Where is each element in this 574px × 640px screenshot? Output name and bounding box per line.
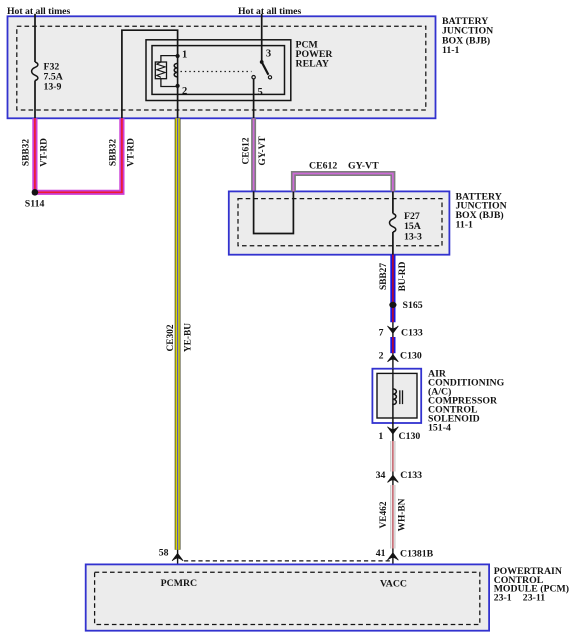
relay switch blade bbox=[262, 62, 272, 79]
svg-text:SBB32: SBB32 bbox=[21, 139, 31, 166]
wire: relay pin 5 down inside BJB bbox=[253, 79, 255, 118]
label: F27 15A 13-3 bbox=[404, 211, 422, 243]
battery junction box BJB top: inner dashed border bbox=[17, 26, 426, 110]
svg-text:VT-RD: VT-RD bbox=[40, 138, 50, 167]
label: BATTERY JUNCTION BOX (BJB) 11-1 (top box) bbox=[442, 16, 493, 56]
svg-text:S165: S165 bbox=[403, 300, 423, 311]
svg-text:41: 41 bbox=[376, 548, 386, 559]
solenoid core bars bbox=[400, 390, 403, 404]
svg-text:WH-BN: WH-BN bbox=[398, 498, 408, 531]
svg-text:VACC: VACC bbox=[380, 579, 407, 590]
wire: jumper inside BJB 2 bbox=[254, 191, 294, 233]
svg-text:34: 34 bbox=[376, 470, 386, 481]
node: relay pin 3 pivot bbox=[260, 60, 264, 64]
wire VE462 WH-BN (C133 to PCM pin 41) bbox=[390, 485, 395, 549]
svg-text:151-4: 151-4 bbox=[428, 422, 451, 433]
svg-text:VE462: VE462 bbox=[379, 501, 389, 528]
svg-text:CE612: CE612 bbox=[309, 160, 337, 171]
wire: shaft through connector C133 pin 7 bbox=[392, 322, 394, 337]
wire: shaft into PCM pin 58 bbox=[177, 550, 179, 572]
svg-text:BU-RD: BU-RD bbox=[398, 261, 408, 291]
svg-text:C133: C133 bbox=[401, 327, 423, 338]
dashed connector boundary between pin 58 and pin 41 bbox=[184, 560, 391, 562]
svg-text:3: 3 bbox=[266, 49, 271, 60]
wire: shaft into PCM pin 41 bbox=[392, 549, 394, 572]
svg-text:11-1: 11-1 bbox=[442, 45, 460, 56]
A/C compressor control solenoid outer blue box bbox=[372, 369, 421, 423]
wire: relay pin 2 down inside BJB bbox=[177, 87, 179, 119]
svg-text:CE612: CE612 bbox=[242, 137, 252, 164]
wire: left feed from Hot at all times to fuse F32 bbox=[34, 14, 36, 62]
svg-text:C130: C130 bbox=[400, 351, 422, 362]
powertrain control module PCM outer blue box bbox=[86, 564, 489, 630]
node: relay pin 1 bbox=[176, 54, 180, 58]
svg-text:1: 1 bbox=[378, 431, 383, 442]
svg-text:C133: C133 bbox=[400, 470, 422, 481]
relay actuation dotted link bbox=[181, 71, 252, 73]
relay coil suppression resistor bbox=[155, 56, 177, 87]
PCM power relay outer box bbox=[146, 40, 291, 101]
svg-text:C1381B: C1381B bbox=[400, 549, 434, 560]
connector C130 arrow (pin 1, pointing down) bbox=[388, 427, 399, 434]
label: BATTERY JUNCTION BOX (BJB) 11-1 (second box) bbox=[456, 191, 507, 230]
svg-text:Hot at all times: Hot at all times bbox=[7, 6, 70, 17]
connector C1381B arrow (pin 41, pointing up) bbox=[387, 553, 398, 560]
svg-text:Hot at all times: Hot at all times bbox=[238, 6, 301, 17]
svg-text:SBB27: SBB27 bbox=[379, 263, 389, 290]
wire: fuse F32 to box bottom bbox=[34, 81, 36, 119]
PCM power relay inner box bbox=[152, 46, 285, 95]
wire: Hot at all times to relay pin 3 bbox=[261, 14, 263, 62]
wire: fuse F27 to box bottom bbox=[392, 232, 394, 255]
svg-text:5: 5 bbox=[258, 87, 263, 98]
svg-text:PCMRC: PCMRC bbox=[161, 578, 197, 589]
wire CE302 YE-BU (relay pin 2 to PCM pin 58) bbox=[175, 118, 181, 550]
svg-text:RELAY: RELAY bbox=[296, 59, 329, 70]
svg-text:11-1: 11-1 bbox=[456, 220, 474, 231]
battery junction box BJB 2: inner dashed border bbox=[238, 199, 442, 246]
connector C133 arrow (pin 34, pointing up) bbox=[388, 472, 399, 486]
svg-text:15A: 15A bbox=[404, 221, 421, 232]
powertrain control module PCM inner dashed border bbox=[95, 572, 480, 624]
wire VE462 WH-BN (solenoid to connector C133 pin 34) bbox=[390, 441, 395, 472]
relay coil between pins 1 and 2 bbox=[174, 56, 177, 87]
wire: into solenoid coil bbox=[392, 369, 394, 405]
node: relay pin 2 bbox=[176, 84, 180, 88]
wire: relay feed inside BJB (from VT-RD riser up and over to pin 1) bbox=[122, 30, 178, 118]
svg-text:7: 7 bbox=[379, 327, 384, 338]
svg-text:CE302: CE302 bbox=[166, 324, 176, 351]
svg-text:1: 1 bbox=[182, 49, 187, 60]
label: POWERTRAIN CONTROL MODULE (PCM) 23-1 23-11 bbox=[494, 566, 569, 603]
battery junction box BJB 2: outer blue box bbox=[229, 191, 450, 254]
fuse F27 symbol bbox=[390, 214, 396, 233]
label: AIR CONDITIONING (A/C) COMPRESSOR CONTROL SOLENOID 151-4 bbox=[428, 368, 505, 433]
svg-text:23-1: 23-1 bbox=[494, 592, 512, 603]
wire: to fuse F27 inside BJB 2 bbox=[392, 191, 394, 213]
svg-text:13-9: 13-9 bbox=[44, 82, 62, 93]
wire BU-RD between C133 and C130 bbox=[390, 337, 395, 353]
svg-text:2: 2 bbox=[379, 351, 384, 362]
svg-text:YE-BU: YE-BU bbox=[183, 323, 193, 352]
splice S114 bbox=[32, 189, 39, 196]
svg-text:2: 2 bbox=[182, 86, 187, 97]
wire SBB32 VT-RD left run (fuse F32 to S114 to BJB riser) bbox=[35, 118, 122, 192]
label: F32 7.5A 13-9 bbox=[44, 62, 63, 93]
svg-text:SBB32: SBB32 bbox=[108, 139, 118, 166]
svg-text:S114: S114 bbox=[25, 198, 45, 209]
A/C compressor control solenoid inner box bbox=[377, 373, 417, 418]
svg-text:GY-VT: GY-VT bbox=[348, 160, 379, 171]
fuse F32 symbol bbox=[32, 62, 38, 81]
solenoid coil bbox=[393, 389, 397, 405]
wire SBB27 BU-RD (BJB 2 to S165 and connector C133) bbox=[390, 255, 395, 323]
splice S165 bbox=[389, 302, 396, 308]
svg-text:VT-RD: VT-RD bbox=[127, 138, 137, 167]
battery junction box BJB top: outer blue box bbox=[8, 16, 436, 118]
connector arrow (pin 58, pointing up) bbox=[172, 553, 183, 560]
label: PCM POWER RELAY bbox=[296, 40, 334, 70]
connector C133 arrow (pin 7, pointing down) bbox=[388, 326, 399, 333]
connector C130 arrow (pin 2, pointing up) bbox=[388, 353, 399, 369]
wire CE612 GY-VT loop above BJB 2 bbox=[293, 174, 393, 192]
wire: out of solenoid coil bbox=[392, 404, 394, 441]
relay stationary contact (pin 5) bbox=[252, 76, 255, 79]
svg-text:13-3: 13-3 bbox=[404, 232, 422, 243]
svg-text:23-11: 23-11 bbox=[523, 592, 545, 603]
wire CE612 GY-VT (relay pin 5 down to BJB 2) bbox=[251, 118, 256, 191]
svg-text:58: 58 bbox=[159, 548, 169, 559]
svg-text:C130: C130 bbox=[399, 431, 421, 442]
svg-text:GY-VT: GY-VT bbox=[258, 136, 268, 166]
